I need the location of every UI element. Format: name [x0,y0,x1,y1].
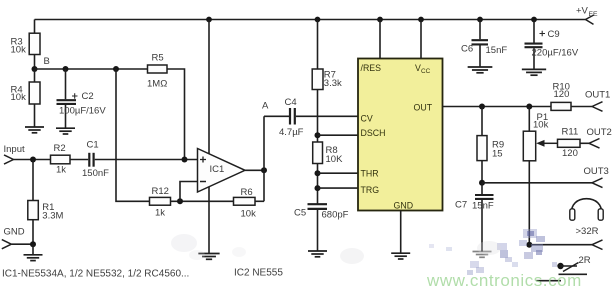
node: rail junction to IC1 V+ [206,17,212,23]
wire to DSCH pin [318,134,359,136]
svg-text:CC: CC [421,68,431,75]
svg-text:GND: GND [394,200,414,210]
wire GND pin of IC2 [400,211,402,254]
node: B line to C2 [63,66,69,72]
svg-text:R2: R2 [54,143,66,154]
headphone output terminal [592,240,603,250]
wire top supply rail [35,19,586,21]
node: B line to R12 branch [113,66,119,72]
resistor R5 1M [147,52,167,89]
node: GND junction [30,241,36,247]
svg-text:GND: GND [4,226,25,237]
svg-text:1k: 1k [155,207,165,218]
svg-text:10K: 10K [326,154,344,165]
node: headphone line junction [526,242,532,248]
svg-text:10k: 10k [241,208,257,219]
svg-text:IC1-NE5534A, 1/2 NE5532, 1/2 R: IC1-NE5534A, 1/2 NE5532, 1/2 RC4560... [2,268,189,279]
ground below C2 [56,128,75,134]
svg-text:150nF: 150nF [82,168,109,179]
node: rail junction to C9 [531,17,537,23]
wire to inverting input [180,182,198,202]
svg-text:DSCH: DSCH [361,128,386,138]
capacitor C1 150nF [82,140,198,180]
power terminal +VEE [576,6,598,25]
node: rail junction to R7 [315,17,321,23]
svg-text:120: 120 [554,89,570,100]
ground below IC1 [198,254,219,260]
node: OUT line to R9 [479,104,485,110]
ground below C5 [308,251,327,257]
ground input terminal GND [2,226,33,248]
wiper arrow of P1 [536,140,557,147]
wire to TRG pin [318,187,359,189]
node: input junction to R1 [30,157,36,163]
svg-text:3.3k: 3.3k [324,78,342,89]
node: inverting input junction [177,198,183,204]
IC2 NE555 timer [358,59,443,211]
output terminal OUT2 [587,127,612,148]
resistor R8 10K [313,142,343,204]
wire R5 right side down to + input [167,69,185,160]
potentiometer P1 10k [523,107,548,245]
svg-text:EE: EE [589,11,599,18]
wire /RES pin to rail [379,20,381,59]
capacitor C4 4.7uF [264,97,358,138]
node B [32,56,50,72]
ground below R1 [24,244,43,260]
ground below C9 [522,69,546,75]
wire IC1 V- to ground [208,187,210,254]
output terminal OUT1 [585,89,610,111]
input terminal [4,144,51,164]
svg-text:100µF/16V: 100µF/16V [59,106,106,117]
svg-text:OUT: OUT [414,103,433,113]
ground below R4 [25,127,44,133]
wire headphone line [529,244,592,246]
resistor R11 120 [558,126,590,159]
svg-text:10k: 10k [11,44,27,55]
svg-text:680pF: 680pF [322,209,349,220]
svg-text:TRG: TRG [361,185,380,195]
ground below C7 (faded by watermark) [473,252,492,258]
svg-text:OUT1: OUT1 [585,89,610,100]
resistor R12 1k [150,186,234,219]
svg-text:15nF: 15nF [472,201,494,212]
svg-text:A: A [262,101,269,112]
output terminal OUT3 [584,166,609,188]
svg-text:2R: 2R [579,255,591,266]
node: rail junction to C6 [477,17,483,23]
resistor R4 10k [11,69,41,127]
faint ghost watermark blobs [171,234,501,264]
headphones icon >32R [570,199,603,237]
node A output junction [261,101,269,174]
resistor R9 15 [477,107,504,183]
wire IC1 output [245,169,264,171]
svg-text:R6: R6 [241,187,253,198]
svg-text:120: 120 [562,148,578,159]
resistor R6 10k (feedback) [234,187,265,219]
svg-text:R11: R11 [562,126,579,137]
svg-text:www.cntronics.com: www.cntronics.com [426,271,582,290]
resistor R2 1k [51,143,89,176]
wire node B horizontal line [35,68,148,70]
svg-text:3.3M: 3.3M [42,211,63,222]
svg-text:C9: C9 [548,29,560,40]
capacitor C9 220uF/16V (electrolytic) [525,20,579,70]
node: OUT line to P1 [526,104,532,110]
capacitor C6 15nF [461,20,507,68]
node: TRG junction [315,185,321,191]
svg-text:1MΩ: 1MΩ [147,78,167,89]
capacitor C7 15nF [455,183,494,252]
node: rail junction to Vcc [418,17,424,23]
capacitor C5 680pF [294,204,349,251]
svg-text:B: B [44,56,50,67]
wire IC2 OUT pin line [443,106,552,108]
ground below C6 [468,67,493,73]
svg-text:10k: 10k [533,119,549,130]
wire IC1 V+ from rail [208,20,210,154]
wire output vertical branch [263,116,265,201]
svg-text:C6: C6 [461,44,473,55]
svg-text:C7: C7 [455,200,467,211]
svg-text:220µF/16V: 220µF/16V [532,48,579,59]
svg-text:15: 15 [492,148,503,159]
svg-text:R12: R12 [152,186,169,197]
wire OUT3 line [482,182,592,184]
svg-text:/RES: /RES [361,63,382,73]
node: + input junction with R5 feed [182,157,188,163]
svg-text:IC2 NE555: IC2 NE555 [234,268,283,279]
svg-text:THR: THR [361,168,379,178]
node: DSCH junction [315,132,321,138]
svg-text:1k: 1k [56,165,66,176]
svg-text:10k: 10k [11,92,27,103]
svg-text:C1: C1 [87,140,99,151]
node: R9/C7/OUT3 junction [479,180,485,186]
svg-text:OUT2: OUT2 [587,127,612,138]
svg-text:OUT3: OUT3 [584,166,609,177]
svg-text:C4: C4 [285,97,297,108]
resistor R10 120 [551,81,592,110]
svg-text:R5: R5 [152,52,164,63]
resistor R3 10k [11,20,41,70]
op-amp IC1 [198,149,246,193]
wire to THR pin [318,172,359,174]
wire branch from B line down to R12 [116,69,150,201]
ground below IC2 [391,253,410,259]
svg-text:4.7µF: 4.7µF [279,127,304,138]
capacitor C2 100uF/16V (electrolytic) [57,69,107,128]
caption text [2,268,283,280]
wire Vcc pin to rail [420,20,422,59]
svg-text:+V: +V [576,6,589,17]
speaker terminal 2R (watermark damaged) [536,255,591,281]
svg-text:C2: C2 [82,91,94,102]
resistor R7 3.3k [312,20,342,143]
svg-text:IC1: IC1 [210,164,225,175]
watermark pixel noise [429,229,557,275]
svg-text:CV: CV [361,113,373,123]
svg-text:Input: Input [4,144,25,155]
svg-text:C5: C5 [294,208,306,219]
svg-text:>32R: >32R [576,226,599,237]
node: THR junction [315,170,321,176]
resistor R1 3.3M [28,160,64,245]
node: rail junction to /RES [377,17,383,23]
svg-text:15nF: 15nF [486,45,508,56]
